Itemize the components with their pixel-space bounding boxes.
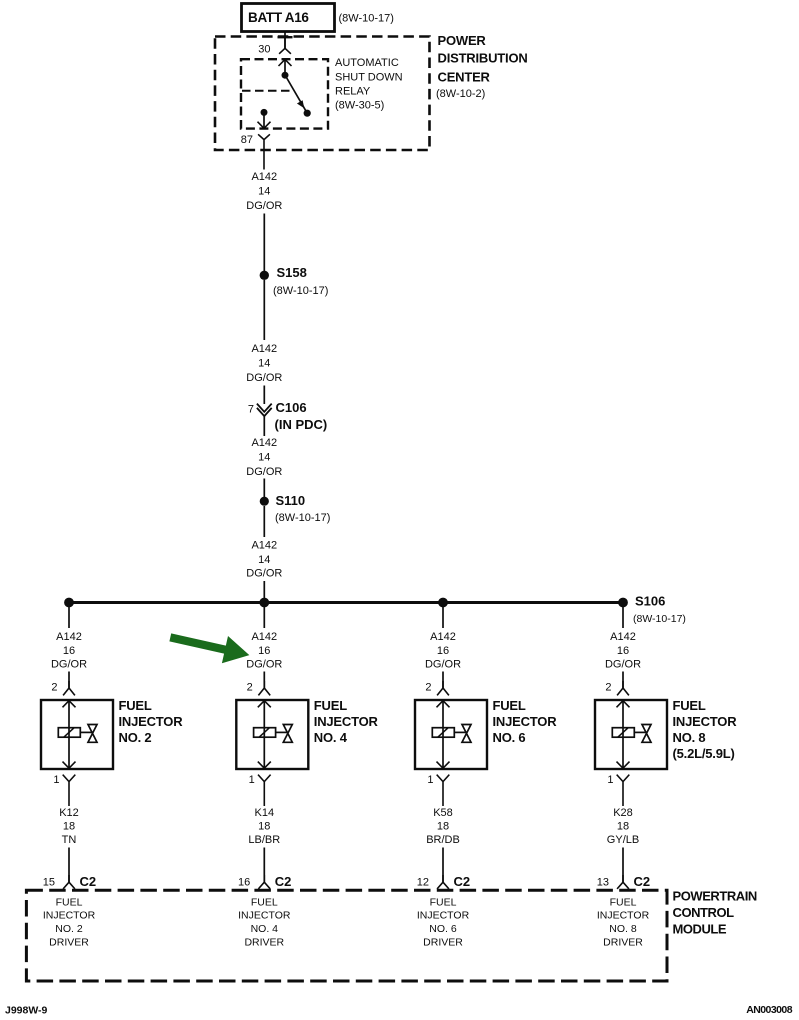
powertrain control module dashed box: [26, 890, 667, 981]
wire bus to A142 label column 8: [622, 606, 624, 628]
relay fixed contact dot: [304, 110, 311, 117]
svg-text:FUEL: FUEL: [56, 896, 83, 908]
svg-text:FUEL: FUEL: [430, 896, 457, 908]
fuel injector no. 8 box: [595, 700, 667, 769]
svg-text:K58: K58: [433, 807, 453, 819]
svg-text:FUEL: FUEL: [119, 698, 152, 713]
svg-text:DG/OR: DG/OR: [425, 658, 461, 670]
wire label to pin 2 column 8: [622, 672, 624, 689]
injector 4 solenoid coil: [254, 728, 276, 738]
svg-text:FUEL: FUEL: [610, 896, 637, 908]
wire label to pin 2 column 4: [263, 672, 265, 689]
wire S158 to A142 label: [263, 280, 265, 340]
injector 6 solenoid coil: [432, 728, 454, 738]
wire bus to A142 label column 4: [263, 606, 265, 628]
svg-text:AN003008: AN003008: [746, 1004, 793, 1016]
connector pin 30: female fork: [279, 37, 291, 54]
power distribution center dashed box: [215, 37, 430, 151]
wire to splice S158: [263, 214, 265, 272]
connector C2 column 6: female fork: [437, 875, 449, 889]
svg-text:DRIVER: DRIVER: [49, 936, 89, 948]
svg-text:DG/OR: DG/OR: [246, 568, 282, 580]
connector pin 2 column 2: male arrow into injector: [63, 701, 76, 708]
svg-text:(8W-30-5): (8W-30-5): [335, 99, 384, 111]
svg-text:INJECTOR: INJECTOR: [238, 909, 291, 921]
svg-text:13: 13: [597, 876, 609, 888]
connector pin 2 column 4: female fork: [258, 681, 270, 695]
svg-text:INJECTOR: INJECTOR: [493, 714, 558, 729]
svg-text:C2: C2: [454, 874, 471, 889]
injector 2 link to valve: [80, 731, 92, 733]
svg-text:NO. 6: NO. 6: [493, 730, 526, 745]
injector 6 pintle valve (bowtie): [462, 725, 471, 743]
svg-text:K14: K14: [255, 807, 275, 819]
svg-text:A142: A142: [251, 171, 277, 183]
svg-text:A142: A142: [430, 631, 456, 643]
svg-text:16: 16: [63, 645, 75, 657]
svg-text:MODULE: MODULE: [673, 921, 727, 936]
svg-text:1: 1: [427, 774, 433, 786]
connector pin 30: male arrow into relay: [279, 59, 292, 66]
injector 4 internal wire with arrows: [263, 701, 265, 769]
svg-text:DISTRIBUTION: DISTRIBUTION: [438, 51, 528, 66]
wire bus to A142 label column 2: [68, 606, 70, 628]
battery feed fuse box BATT A16: [242, 4, 335, 32]
wire label to pin 2 column 6: [442, 672, 444, 689]
svg-text:A142: A142: [251, 437, 277, 449]
connector pin 2 column 2: female fork: [63, 681, 75, 695]
svg-text:K12: K12: [59, 807, 79, 819]
connector C2 column 2: female fork: [63, 875, 75, 889]
wire label to pin 2 column 2: [68, 672, 70, 689]
svg-text:C2: C2: [634, 874, 651, 889]
svg-text:2: 2: [51, 682, 57, 694]
connector pin 1 column 8: female fork below injector: [617, 775, 630, 806]
green highlight arrow: [167, 624, 252, 669]
fuel injector no. 4 box: [236, 700, 308, 769]
svg-text:12: 12: [417, 876, 429, 888]
wire to splice S110: [263, 479, 265, 498]
svg-text:(8W-10-2): (8W-10-2): [436, 88, 485, 100]
svg-text:DG/OR: DG/OR: [246, 658, 282, 670]
wire to connector C106: [263, 386, 265, 405]
svg-text:A142: A142: [251, 631, 277, 643]
wire to bus: [263, 581, 265, 601]
svg-text:(8W-10-17): (8W-10-17): [275, 512, 330, 524]
svg-text:K28: K28: [613, 807, 633, 819]
svg-text:1: 1: [607, 774, 613, 786]
fuel injector no. 6 box: [415, 700, 487, 769]
svg-text:DG/OR: DG/OR: [51, 658, 87, 670]
svg-text:(8W-10-17): (8W-10-17): [339, 13, 394, 25]
wire bus to A142 label column 6: [442, 606, 444, 628]
svg-text:A142: A142: [251, 343, 277, 355]
svg-text:DG/OR: DG/OR: [246, 372, 282, 384]
svg-text:18: 18: [437, 821, 449, 833]
wire to connector C2 column 8: [622, 848, 624, 883]
svg-text:S110: S110: [276, 493, 306, 508]
svg-text:J998W-9: J998W-9: [5, 1005, 48, 1017]
injector 4 link to valve: [276, 731, 288, 733]
svg-text:TN: TN: [62, 834, 77, 846]
connector pin 87: female fork below relay: [258, 134, 270, 169]
svg-text:FUEL: FUEL: [251, 896, 278, 908]
svg-text:INJECTOR: INJECTOR: [417, 909, 470, 921]
svg-text:AUTOMATIC: AUTOMATIC: [335, 57, 399, 69]
svg-text:87: 87: [241, 134, 253, 146]
svg-text:15: 15: [43, 876, 55, 888]
splice S158 dot: [260, 271, 269, 280]
injector 2 solenoid coil: [58, 728, 80, 738]
wire to connector C2 column 6: [442, 848, 444, 883]
svg-text:DG/OR: DG/OR: [246, 200, 282, 212]
ASD relay inner dashed box: [241, 59, 328, 128]
svg-text:DRIVER: DRIVER: [423, 936, 463, 948]
relay output contact dot pin 87: [261, 109, 268, 116]
svg-text:16: 16: [238, 876, 250, 888]
svg-text:1: 1: [53, 774, 59, 786]
connector pin 2 column 6: female fork: [437, 681, 449, 695]
svg-text:C2: C2: [80, 874, 97, 889]
injector 2 pintle valve (bowtie): [88, 725, 97, 743]
svg-text:14: 14: [258, 358, 270, 370]
relay armature diagonal with arrowhead: [285, 76, 307, 113]
injector 2 internal wire with arrows: [68, 701, 70, 769]
svg-text:A142: A142: [56, 631, 82, 643]
svg-text:FUEL: FUEL: [493, 698, 526, 713]
relay movable contact dot: [282, 72, 289, 79]
svg-text:S106: S106: [635, 594, 665, 609]
svg-text:INJECTOR: INJECTOR: [673, 714, 738, 729]
connector pin 1 column 2: female fork below injector: [63, 775, 76, 806]
svg-text:POWERTRAIN: POWERTRAIN: [673, 888, 757, 903]
bus wire to splice S106: [69, 601, 625, 604]
bus junction dot column 8: [618, 598, 628, 608]
svg-text:NO. 2: NO. 2: [119, 730, 152, 745]
injector 6 internal wire with arrows: [442, 701, 444, 769]
bus junction dot column 2: [64, 598, 74, 608]
injector 4 pintle valve (bowtie): [283, 725, 292, 743]
svg-text:DG/OR: DG/OR: [605, 658, 641, 670]
svg-text:RELAY: RELAY: [335, 86, 371, 98]
svg-text:18: 18: [617, 821, 629, 833]
svg-text:NO. 2: NO. 2: [55, 923, 83, 935]
injector 8 link to valve: [634, 731, 646, 733]
svg-text:FUEL: FUEL: [314, 698, 347, 713]
svg-text:NO. 8: NO. 8: [673, 730, 706, 745]
svg-text:DRIVER: DRIVER: [603, 936, 643, 948]
svg-text:DRIVER: DRIVER: [244, 936, 284, 948]
svg-text:NO. 4: NO. 4: [314, 730, 348, 745]
wire to connector C2 column 2: [68, 848, 70, 883]
connector pin 2 column 4: male arrow into injector: [258, 701, 271, 708]
injector 8 internal wire with arrows: [622, 701, 624, 769]
svg-text:2: 2: [425, 682, 431, 694]
svg-text:16: 16: [617, 645, 629, 657]
svg-text:NO. 4: NO. 4: [251, 923, 279, 935]
relay dashed divider: [242, 90, 292, 92]
svg-text:16: 16: [437, 645, 449, 657]
svg-text:1: 1: [249, 774, 255, 786]
connector pin 30: terminal bar: [278, 36, 293, 38]
svg-text:LB/BR: LB/BR: [248, 834, 280, 846]
svg-text:SHUT DOWN: SHUT DOWN: [335, 71, 403, 83]
svg-text:A142: A142: [610, 631, 636, 643]
svg-text:POWER: POWER: [438, 33, 487, 48]
svg-text:INJECTOR: INJECTOR: [314, 714, 379, 729]
svg-text:BR/DB: BR/DB: [426, 834, 460, 846]
svg-text:S158: S158: [277, 265, 307, 280]
svg-text:(8W-10-17): (8W-10-17): [273, 285, 328, 297]
svg-text:CENTER: CENTER: [438, 70, 491, 85]
wire BATT A16 to relay pin 30: [284, 31, 286, 48]
connector pin 2 column 6: male arrow into injector: [437, 701, 450, 708]
connector C2 column 4: female fork: [258, 875, 270, 889]
svg-text:INJECTOR: INJECTOR: [597, 909, 650, 921]
connector pin 2 column 8: female fork: [617, 681, 629, 695]
svg-text:14: 14: [258, 554, 270, 566]
wire pin 30 arrow to movable contact: [284, 59, 286, 75]
bus junction dot column 6: [438, 598, 448, 608]
wire C106 to A142 label: [263, 416, 265, 436]
svg-text:(5.2L/5.9L): (5.2L/5.9L): [673, 746, 735, 761]
pin 87 wire and male arrow out of relay: [263, 112, 265, 128]
injector 6 link to valve: [454, 731, 466, 733]
svg-text:NO. 8: NO. 8: [609, 923, 637, 935]
svg-text:(IN PDC): (IN PDC): [275, 417, 328, 432]
wire S110 to A142 label: [263, 506, 265, 537]
svg-text:2: 2: [605, 682, 611, 694]
svg-text:16: 16: [258, 645, 270, 657]
svg-text:2: 2: [247, 682, 253, 694]
svg-text:18: 18: [63, 821, 75, 833]
injector 8 solenoid coil: [612, 728, 634, 738]
svg-text:A142: A142: [251, 540, 277, 552]
svg-text:C2: C2: [275, 874, 292, 889]
svg-text:INJECTOR: INJECTOR: [43, 909, 96, 921]
svg-text:CONTROL: CONTROL: [673, 905, 735, 920]
svg-text:GY/LB: GY/LB: [607, 834, 639, 846]
svg-text:30: 30: [258, 44, 270, 56]
fuel injector no. 2 box: [41, 700, 113, 769]
splice S110 dot: [260, 497, 269, 506]
injector 8 pintle valve (bowtie): [642, 725, 651, 743]
bus junction dot column 4: [259, 598, 269, 608]
svg-text:18: 18: [258, 821, 270, 833]
svg-text:BATT A16: BATT A16: [248, 10, 309, 25]
svg-text:(8W-10-17): (8W-10-17): [633, 613, 686, 625]
connector C106 double chevron, pin 7: [257, 404, 272, 412]
svg-text:14: 14: [258, 452, 270, 464]
svg-text:DG/OR: DG/OR: [246, 466, 282, 478]
svg-text:FUEL: FUEL: [673, 698, 706, 713]
svg-text:7: 7: [248, 403, 254, 415]
svg-text:INJECTOR: INJECTOR: [119, 714, 184, 729]
connector C2 column 8: female fork: [617, 875, 629, 889]
svg-text:14: 14: [258, 186, 270, 198]
svg-text:NO. 6: NO. 6: [429, 923, 457, 935]
connector pin 2 column 8: male arrow into injector: [617, 701, 630, 708]
svg-text:C106: C106: [276, 400, 307, 415]
wire to connector C2 column 4: [263, 848, 265, 883]
connector pin 1 column 4: female fork below injector: [258, 775, 271, 806]
connector pin 1 column 6: female fork below injector: [437, 775, 450, 806]
